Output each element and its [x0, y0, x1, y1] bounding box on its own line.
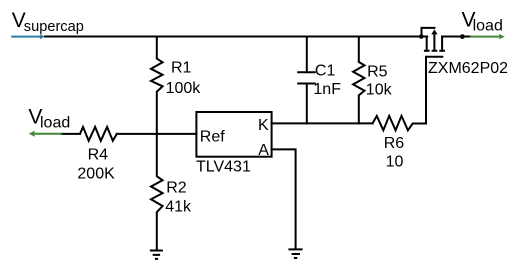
- wire: blue V_supercap stub: [12, 36, 40, 38]
- gate bar: [425, 56, 443, 58]
- svg-text:10: 10: [386, 154, 404, 171]
- wire: node row to Ref: [61, 133, 196, 135]
- svg-text:200K: 200K: [77, 165, 115, 182]
- svg-text:supercap: supercap: [24, 19, 84, 35]
- node: V_supercap arrowhead: [40, 34, 45, 39]
- wire: A pin to ground: [272, 149, 296, 248]
- transistor ZXM62P02 PMOS: [422, 28, 471, 57]
- svg-text:Ref: Ref: [200, 128, 225, 145]
- body arrow shaft: [433, 34, 435, 51]
- svg-text:R6: R6: [384, 135, 405, 152]
- node: dot at V_load: [460, 34, 465, 39]
- body arrowhead: [431, 29, 437, 34]
- ground (R2): [150, 251, 163, 259]
- svg-text:R1: R1: [171, 60, 192, 77]
- svg-text:R2: R2: [166, 180, 187, 197]
- resistor R5: [353, 37, 364, 124]
- resistor R1: [151, 37, 163, 134]
- svg-text:A: A: [258, 142, 269, 159]
- svg-text:R5: R5: [367, 63, 388, 80]
- wire: K net to R6: [272, 122, 373, 124]
- ground (A pin): [288, 249, 302, 258]
- svg-text:load: load: [473, 17, 503, 34]
- source lead: [426, 37, 428, 51]
- resistor R2: [151, 134, 163, 250]
- node: dot at FET source: [419, 34, 424, 39]
- svg-text:R4: R4: [88, 146, 109, 163]
- shunt regulator TLV431 box: [196, 112, 271, 157]
- svg-text:load: load: [40, 114, 70, 131]
- svg-text:ZXM62P02: ZXM62P02: [428, 60, 508, 77]
- svg-text:C1: C1: [315, 63, 336, 80]
- node: V_load right arrowhead: [499, 34, 505, 39]
- drain wire to Vload: [442, 36, 471, 38]
- wire: green V_load left stub: [34, 133, 61, 135]
- source-body bracket: [422, 28, 435, 37]
- svg-text:TLV431: TLV431: [196, 158, 251, 175]
- svg-text:41k: 41k: [165, 199, 192, 216]
- drain lead: [441, 37, 443, 51]
- node: V_load left arrowhead: [29, 131, 35, 137]
- svg-text:K: K: [258, 117, 269, 134]
- capacitor C1: [298, 37, 315, 124]
- svg-text:100k: 100k: [166, 80, 202, 97]
- wire: green V_load right stub: [471, 36, 500, 38]
- resistor R4: [80, 127, 117, 141]
- channel ticks: [424, 50, 445, 52]
- resistor R6: [373, 116, 426, 130]
- wire: V_supercap top rail: [45, 36, 427, 38]
- svg-text:10k: 10k: [366, 81, 393, 98]
- wire: gate lead up: [425, 57, 427, 124]
- svg-text:1nF: 1nF: [313, 81, 341, 98]
